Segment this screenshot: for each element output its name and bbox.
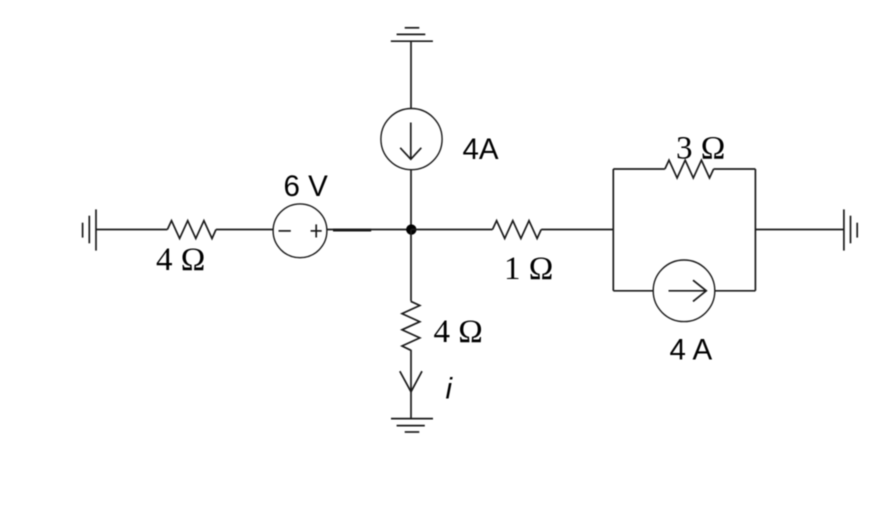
- wire box bottom-right: [715, 290, 756, 292]
- node (junction dot): [406, 224, 416, 234]
- wire box left vertical: [612, 169, 614, 291]
- voltage source V1 (6V): [273, 204, 327, 258]
- wire resistor to voltage source: [216, 229, 273, 231]
- svg-text:4 Ω: 4 Ω: [434, 314, 483, 350]
- wire current source to node: [410, 170, 412, 230]
- ground (bottom): [391, 419, 433, 432]
- wire stub (thick) at voltage source output: [333, 229, 371, 232]
- current arrow i (down): [400, 371, 422, 392]
- ground (right, rotated): [844, 209, 857, 250]
- resistor 4ohm (bottom branch, vertical): [402, 301, 420, 350]
- wire node to 1ohm resistor: [411, 229, 493, 231]
- resistor 3ohm (top branch): [665, 160, 714, 178]
- ground (left, rotated): [83, 209, 96, 250]
- wire top-ground to current source: [410, 41, 412, 108]
- wire box bottom-left: [613, 290, 653, 292]
- svg-text:4 Ω: 4 Ω: [156, 242, 205, 278]
- wire node to 4ohm resistor (down): [410, 230, 412, 302]
- current source I2 (4 A, arrow right): [653, 260, 715, 322]
- resistor 1ohm: [493, 221, 542, 239]
- ground (top, flipped): [391, 28, 433, 41]
- wire 1ohm to parallel box: [541, 229, 613, 231]
- svg-text:4A: 4A: [463, 133, 499, 166]
- svg-text:3 Ω: 3 Ω: [676, 130, 725, 166]
- wire voltage source to node: [327, 229, 411, 231]
- wire resistor to bottom ground with current arrow: [410, 350, 412, 419]
- wire box top-left: [613, 168, 665, 170]
- wire box top-right: [714, 168, 756, 170]
- svg-text:i: i: [446, 372, 454, 405]
- wire box right vertical: [754, 169, 756, 291]
- wire left-ground to resistor: [96, 229, 167, 231]
- svg-text:1 Ω: 1 Ω: [504, 251, 553, 287]
- resistor 4ohm (left): [167, 221, 216, 239]
- svg-text:6 V: 6 V: [284, 170, 329, 203]
- svg-text:4 A: 4 A: [670, 334, 713, 367]
- wire box to right ground: [755, 229, 844, 231]
- current source I1 (4A, arrow down): [381, 109, 442, 170]
